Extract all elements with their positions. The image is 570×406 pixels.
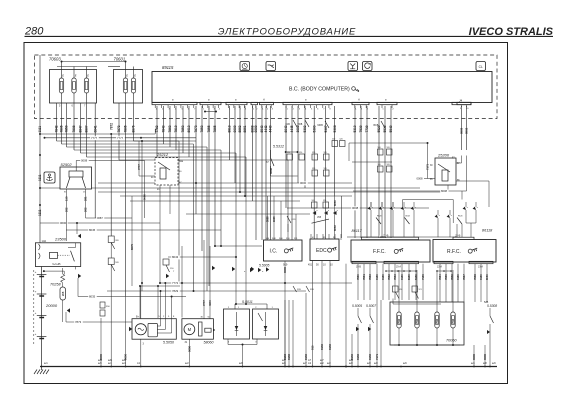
svg-text:86117: 86117 (352, 229, 363, 233)
svg-text:8150: 8150 (407, 274, 411, 280)
svg-text:520: 520 (323, 200, 326, 202)
svg-text:J2-A: J2-A (437, 265, 442, 268)
svg-text:520: 520 (299, 152, 302, 154)
svg-text:5.5308: 5.5308 (487, 304, 497, 308)
svg-text:520: 520 (324, 168, 327, 170)
svg-text:8052: 8052 (333, 225, 337, 231)
icon box 5 (476, 62, 486, 71)
svg-text:A: A (262, 98, 265, 102)
svg-text:0150: 0150 (368, 354, 372, 360)
svg-text:8045: 8045 (89, 228, 96, 232)
svg-text:52502: 52502 (61, 162, 73, 167)
relay 52502 (60, 162, 92, 193)
svg-text:7855: 7855 (207, 125, 211, 132)
svg-text:8008: 8008 (441, 189, 447, 193)
svg-text:F.F.C.: F.F.C. (373, 249, 386, 255)
svg-text:520: 520 (312, 168, 315, 170)
svg-text:J5-B: J5-B (356, 265, 361, 268)
svg-text:23500: 23500 (54, 237, 67, 242)
svg-text:7863: 7863 (168, 125, 172, 132)
svg-text:BCB: BCB (374, 125, 379, 127)
svg-text:7853: 7853 (181, 125, 185, 132)
svg-text:520: 520 (387, 147, 390, 149)
relay 25200 (430, 153, 460, 186)
svg-text:5540: 5540 (389, 125, 393, 132)
wires below R.F.C. (438, 264, 489, 302)
wire beside EDC (341, 196, 343, 238)
svg-text:7777: 7777 (117, 136, 124, 140)
svg-text:202: 202 (65, 207, 69, 212)
svg-text:520: 520 (378, 164, 381, 166)
body computer unit 89115 (152, 65, 492, 103)
svg-text:75W: 75W (398, 318, 401, 324)
svg-text:B.C. (BODY COMPUTER): B.C. (BODY COMPUTER) (289, 87, 350, 93)
svg-text:R.F.C.: R.F.C. (447, 249, 461, 255)
svg-text:520: 520 (387, 164, 390, 166)
svg-text:20000: 20000 (45, 303, 58, 308)
svg-text:8043: 8043 (284, 125, 288, 132)
key symbol next to B.C. label (352, 87, 359, 92)
svg-text:8876: 8876 (132, 125, 136, 132)
svg-text:7777: 7777 (202, 300, 206, 306)
connector pair boxes mid (287, 139, 429, 208)
svg-text:520: 520 (312, 152, 315, 154)
fuel sender 70258 (50, 268, 66, 322)
svg-text:7730: 7730 (365, 125, 369, 132)
switch 5.5308 (484, 301, 497, 367)
svg-text:0000: 0000 (233, 125, 237, 132)
svg-text:7155: 7155 (421, 274, 425, 280)
svg-text:1111: 1111 (38, 126, 42, 133)
svg-text:5310: 5310 (353, 125, 357, 132)
svg-text:7829: 7829 (172, 289, 179, 293)
svg-text:70601: 70601 (114, 57, 126, 62)
svg-text:25212: 25212 (156, 152, 169, 157)
svg-text:5302: 5302 (303, 125, 307, 132)
svg-text:+: + (35, 332, 37, 336)
svg-text:7530: 7530 (359, 125, 363, 132)
switch ticks above left 70060 drops (293, 286, 314, 292)
svg-text:7854: 7854 (438, 274, 442, 280)
svg-text:7873: 7873 (194, 125, 198, 132)
svg-text:8862: 8862 (238, 125, 242, 132)
svg-text:5.5005: 5.5005 (259, 263, 269, 267)
svg-text:8807: 8807 (85, 125, 89, 132)
svg-text:+: + (35, 270, 37, 274)
svg-text:8013: 8013 (187, 125, 191, 132)
svg-text:89115: 89115 (162, 65, 174, 70)
svg-text:8813: 8813 (228, 125, 232, 132)
long horizontal buses (39, 181, 457, 247)
svg-text:3008: 3008 (267, 216, 270, 222)
svg-text:avB: avB (349, 360, 353, 362)
svg-text:+: + (35, 311, 37, 315)
svg-text:520: 520 (312, 200, 315, 202)
svg-text:70603: 70603 (49, 57, 61, 62)
I.C. bottom labels (259, 261, 288, 367)
blower motor 58060 (182, 311, 214, 367)
switches 5.5005 and 5.5007 (352, 304, 376, 334)
svg-text:7777: 7777 (137, 164, 141, 170)
svg-text:7850: 7850 (65, 125, 69, 132)
svg-text:4442: 4442 (264, 125, 268, 132)
svg-text:J5-B: J5-B (383, 233, 389, 237)
svg-text:7842: 7842 (55, 125, 59, 132)
svg-text:7855: 7855 (444, 274, 448, 280)
svg-text:7171: 7171 (375, 354, 379, 360)
svg-text:E: E (87, 74, 89, 78)
instrument cluster unit I.C. (264, 240, 303, 261)
ground bus line (40, 366, 497, 368)
F.F.C. bottom connector tabs (352, 261, 419, 272)
unit EDC pins (311, 234, 341, 240)
svg-text:7853: 7853 (393, 274, 397, 280)
svg-text:86118: 86118 (482, 228, 493, 232)
svg-text:7808: 7808 (72, 125, 76, 132)
svg-text:8847: 8847 (79, 125, 83, 132)
svg-text:5307: 5307 (324, 125, 328, 132)
connector J4 under B.C. right side (457, 99, 471, 111)
svg-text:9+3+95: 9+3+95 (52, 263, 61, 266)
svg-text:0008: 0008 (352, 206, 359, 210)
svg-text:ЭЛЕКТРООБОРУДОВАНИЕ: ЭЛЕКТРООБОРУДОВАНИЕ (218, 26, 356, 37)
svg-text:8892: 8892 (465, 127, 469, 134)
svg-text:0000: 0000 (99, 354, 103, 360)
svg-text:EDC: EDC (316, 248, 327, 254)
svg-text:919: 919 (283, 263, 288, 267)
svg-text:0000: 0000 (254, 125, 258, 132)
svg-text:520: 520 (324, 152, 327, 154)
svg-text:0150: 0150 (400, 274, 404, 280)
svg-text:8888: 8888 (460, 127, 464, 134)
svg-text:7858: 7858 (473, 274, 477, 280)
svg-text:7865: 7865 (213, 125, 217, 132)
svg-text:8050: 8050 (333, 200, 337, 206)
switch symbols below B.C. pins (286, 120, 386, 128)
svg-text:J3-A: J3-A (478, 265, 483, 268)
svg-text:0000: 0000 (472, 354, 476, 360)
arrows on left wires (78, 234, 81, 238)
svg-text:0150: 0150 (328, 344, 332, 350)
svg-text:E: E (126, 74, 128, 78)
svg-text:7806: 7806 (124, 125, 128, 132)
svg-text:0008: 0008 (269, 168, 273, 174)
svg-text:7843: 7843 (162, 125, 166, 132)
svg-text:J4: J4 (459, 99, 463, 103)
svg-text:5.5312: 5.5312 (273, 145, 284, 149)
ground stub (41, 367, 43, 371)
svg-text:52B: 52B (297, 289, 301, 291)
svg-text:7810: 7810 (174, 125, 178, 132)
svg-text:8043: 8043 (172, 255, 179, 259)
svg-text:70258: 70258 (50, 283, 61, 287)
svg-text:75W: 75W (436, 318, 439, 324)
svg-text:K1B: K1B (286, 124, 291, 126)
svg-text:520: 520 (287, 152, 290, 154)
lower wire drops to ground bus (99, 293, 487, 367)
svg-text:521: 521 (419, 289, 422, 291)
relay 25212 dashed box (137, 141, 183, 291)
svg-text:7850: 7850 (356, 274, 360, 280)
svg-text:0687: 0687 (97, 216, 103, 220)
svg-text:0150: 0150 (287, 354, 291, 360)
svg-text:7851: 7851 (362, 274, 366, 280)
svg-text:015: 015 (311, 345, 315, 350)
svg-text:8150: 8150 (350, 354, 354, 360)
switches on unit feed wires (287, 196, 337, 241)
svg-text:8050: 8050 (485, 274, 489, 280)
svg-text:7806: 7806 (60, 125, 64, 132)
unit R.F.C. connector tab above (453, 228, 493, 239)
svg-text:7872: 7872 (117, 125, 121, 132)
svg-text:RC8: RC8 (377, 216, 382, 218)
svg-text:281: 281 (84, 196, 88, 201)
svg-text:+: + (35, 290, 37, 294)
svg-text:E: E (75, 74, 77, 78)
svg-text:0150: 0150 (381, 274, 385, 280)
engine control unit EDC (310, 239, 339, 261)
svg-text:avB: avB (98, 360, 102, 362)
dashed cab-area frame (35, 55, 498, 119)
svg-text:5303: 5303 (312, 125, 316, 132)
nested junction wires from lamp clusters (57, 140, 289, 292)
svg-text:0000: 0000 (283, 267, 287, 273)
front frame computer F.F.C. (351, 240, 430, 262)
relay box 23500 (35, 237, 80, 275)
svg-text:202: 202 (84, 207, 88, 212)
heater motor 5.5050 (132, 282, 176, 367)
svg-text:I.C.: I.C. (270, 249, 278, 255)
mid-lower horizontal links 8043 / 7772 / 7829 (66, 196, 352, 322)
ground hatch symbol (34, 370, 49, 375)
svg-text:0008: 0008 (417, 177, 423, 181)
svg-text:MOB: MOB (318, 125, 324, 127)
svg-text:280: 280 (24, 26, 44, 38)
svg-text:0008: 0008 (273, 216, 276, 222)
svg-text:0150: 0150 (320, 344, 324, 350)
svg-text:8861: 8861 (243, 125, 247, 132)
svg-text:205: 205 (61, 291, 65, 296)
svg-text:0000: 0000 (188, 346, 192, 352)
svg-text:5.5050: 5.5050 (163, 341, 174, 345)
svg-text:0150: 0150 (456, 274, 460, 280)
svg-text:4440: 4440 (269, 125, 273, 132)
svg-text:0000: 0000 (300, 181, 307, 185)
svg-text:9150: 9150 (304, 354, 308, 360)
svg-text:7782: 7782 (155, 125, 159, 132)
svg-text:M: M (188, 327, 192, 332)
lamp cluster 70603 (49, 57, 125, 108)
svg-text:E: E (62, 74, 64, 78)
switch 5.5312 (266, 145, 299, 177)
svg-text:0150: 0150 (356, 354, 360, 360)
svg-text:8675: 8675 (130, 244, 134, 250)
svg-text:5.5011: 5.5011 (242, 300, 253, 304)
svg-text:7873: 7873 (75, 320, 82, 324)
B.C. connector pin rows (152, 98, 471, 113)
svg-text:0000: 0000 (143, 194, 147, 200)
svg-text:5150: 5150 (414, 274, 418, 280)
unit I.C. pins above (266, 196, 299, 240)
svg-text:0150: 0150 (375, 274, 379, 280)
svg-text:4445: 4445 (290, 125, 294, 132)
svg-text:J3-B: J3-B (455, 233, 461, 237)
svg-text:RC8: RC8 (458, 216, 463, 218)
svg-text:0600: 0600 (60, 221, 67, 225)
svg-text:8035: 8035 (89, 295, 96, 299)
R.F.C. bottom connector tabs (434, 261, 493, 272)
svg-text:avB: avB (122, 360, 126, 362)
wires below F.F.C. (345, 264, 441, 368)
svg-text:7857: 7857 (462, 274, 466, 280)
svg-text:V08: V08 (317, 217, 322, 219)
svg-text:520: 520 (332, 139, 335, 141)
svg-text:0150: 0150 (283, 354, 287, 360)
icon box 3 (348, 62, 358, 71)
svg-text:avB: avB (108, 360, 112, 362)
svg-text:520: 520 (340, 139, 343, 141)
svg-text:520: 520 (378, 147, 381, 149)
lamp cluster 70060 (390, 270, 464, 346)
horn unit 5.5011 (224, 300, 279, 366)
svg-text:7856: 7856 (450, 274, 454, 280)
unit F.F.C. connector tab above (352, 229, 419, 240)
rear frame computer R.F.C. (433, 240, 496, 263)
battery 20000 (34, 267, 58, 367)
icon box 1 (240, 62, 250, 71)
svg-text:75W: 75W (416, 318, 419, 324)
wires around 25200 (349, 143, 489, 207)
svg-text:0150: 0150 (479, 274, 483, 280)
svg-text:0000: 0000 (483, 354, 487, 360)
bus 7777 horizontal (39, 129, 196, 140)
lamp cluster 70601 (108, 57, 143, 104)
svg-text:7777: 7777 (91, 136, 98, 140)
svg-text:5.5007: 5.5007 (366, 304, 376, 308)
svg-text:52B: 52B (310, 289, 314, 291)
diagram outer border frame (24, 43, 508, 384)
svg-text:CL: CL (479, 65, 483, 69)
svg-text:58060: 58060 (204, 341, 214, 345)
svg-text:13A: 13A (42, 239, 47, 243)
svg-text:5.5005: 5.5005 (352, 304, 362, 308)
wire field below B.C. (38, 55, 469, 367)
svg-text:7853: 7853 (368, 274, 372, 280)
icon box 2 (266, 62, 276, 71)
svg-text:150: 150 (65, 196, 69, 201)
svg-text:8841: 8841 (93, 125, 97, 132)
diode arrows above unit boxes (313, 200, 479, 225)
svg-text:25200: 25200 (437, 153, 450, 158)
svg-text:0000: 0000 (124, 354, 128, 360)
svg-text:VDB: VDB (298, 124, 303, 126)
svg-text:7171: 7171 (426, 164, 430, 170)
wires above F.F.C. / R.F.C. from diodes (371, 191, 476, 237)
svg-text:5308: 5308 (333, 125, 337, 132)
svg-text:A: A (357, 98, 360, 102)
icon box 4 (363, 62, 373, 71)
svg-text:451: 451 (308, 264, 313, 267)
svg-text:7872: 7872 (109, 123, 113, 130)
svg-text:7852: 7852 (387, 274, 391, 280)
svg-text:E: E (134, 74, 136, 78)
svg-text:52B: 52B (484, 301, 489, 304)
ground bus junction dots and labels (41, 360, 497, 367)
svg-text:7772: 7772 (172, 281, 179, 285)
fuse icon box left (44, 172, 55, 183)
svg-text:J5-A: J5-A (396, 265, 401, 268)
svg-text:520: 520 (399, 289, 402, 291)
svg-text:30a: 30a (179, 160, 184, 163)
horizontal wires lower-left (66, 196, 186, 324)
wires under 52502 (65, 159, 145, 241)
svg-text:7853: 7853 (200, 125, 204, 132)
svg-text:75W: 75W (452, 318, 455, 324)
EDC bottom wires (308, 237, 336, 367)
svg-text:4840: 4840 (208, 300, 212, 306)
svg-text:70060: 70060 (446, 339, 457, 343)
svg-text:0008: 0008 (81, 159, 88, 163)
page header (24, 26, 554, 38)
